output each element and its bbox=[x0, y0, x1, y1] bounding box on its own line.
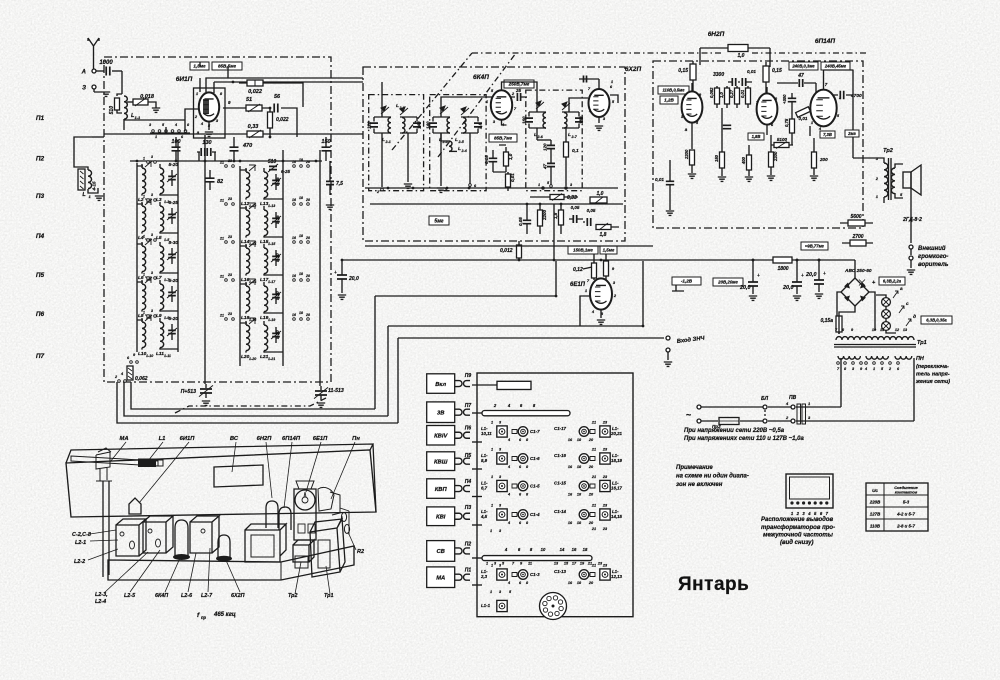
wafer bar P7 bbox=[482, 411, 570, 416]
svg-text:6-25: 6-25 bbox=[169, 200, 179, 206]
svg-text:тель напря-: тель напря- bbox=[916, 372, 950, 378]
wire triode plumbing bbox=[692, 83, 767, 149]
svg-text:18: 18 bbox=[583, 547, 588, 552]
resistor 5600 bbox=[848, 220, 865, 226]
trimmer square left П1 bbox=[497, 569, 507, 580]
svg-text:1: 1 bbox=[491, 564, 493, 568]
svg-text:21: 21 bbox=[591, 448, 596, 452]
svg-text:громкого-: громкого- bbox=[918, 254, 948, 260]
trimmer circle С1-4 bbox=[512, 513, 517, 517]
svg-text:10: 10 bbox=[541, 547, 546, 552]
resistor 2200 bbox=[538, 210, 543, 226]
svg-text:8-30: 8-30 bbox=[169, 240, 179, 246]
chassis deck bbox=[108, 546, 354, 580]
dial lamp b bbox=[882, 310, 891, 319]
transformer Tr2 core bbox=[889, 158, 892, 200]
svg-text:С-2,С-8: С-2,С-8 bbox=[72, 532, 91, 538]
chassis back panel bbox=[66, 450, 376, 517]
coil L1-7 bbox=[160, 246, 164, 272]
svg-text:L2-2: L2-2 bbox=[74, 559, 85, 565]
wire tank3 leads bbox=[441, 97, 512, 186]
svg-text:1-11: 1-11 bbox=[164, 354, 171, 358]
tuning arrow can1 a bbox=[381, 106, 389, 114]
capacitor 120 tank1 bbox=[374, 117, 391, 133]
svg-text:6Н2П: 6Н2П bbox=[257, 436, 273, 442]
switch button 3В bbox=[427, 402, 455, 423]
svg-text:3: 3 bbox=[151, 155, 153, 159]
contact pair 21 23 bbox=[225, 165, 228, 168]
svg-text:-1,2В: -1,2В bbox=[681, 279, 693, 284]
ground AF input bbox=[667, 352, 669, 360]
diode bridge bbox=[841, 278, 869, 306]
svg-text:КВШ: КВШ bbox=[434, 459, 448, 465]
svg-text:Расположение выводов: Расположение выводов bbox=[761, 517, 834, 523]
svg-text:пр: пр bbox=[201, 615, 207, 620]
wire U bottom 1 bbox=[117, 382, 398, 423]
svg-text:L2-1: L2-1 bbox=[75, 540, 86, 546]
voltage table bbox=[866, 483, 928, 531]
svg-text:21: 21 bbox=[219, 161, 224, 165]
transformer Tr1 primary a bbox=[838, 356, 860, 359]
transformer Tr2 primary bbox=[884, 163, 888, 197]
svg-text:1,0: 1,0 bbox=[508, 153, 513, 160]
ground at input bbox=[94, 89, 102, 92]
wire rail right column bbox=[239, 166, 241, 366]
svg-text:2-8 и 5-7: 2-8 и 5-7 bbox=[896, 524, 915, 529]
svg-text:Uс: Uс bbox=[872, 488, 878, 493]
coil L1-19 bbox=[264, 286, 268, 312]
svg-text:1,8В: 1,8В bbox=[752, 134, 761, 139]
svg-text:1,2В: 1,2В bbox=[664, 98, 674, 103]
svg-text:П5: П5 bbox=[465, 453, 472, 459]
terminal AF input 1 bbox=[666, 336, 670, 340]
resistor 0,33 bbox=[247, 131, 263, 137]
resistor 0,022 vertical bbox=[268, 112, 273, 128]
svg-text:+300: +300 bbox=[782, 94, 787, 104]
capacitor 0,05 b bbox=[573, 215, 576, 223]
wire anode risers bbox=[700, 48, 770, 67]
svg-text:1: 1 bbox=[490, 529, 492, 533]
contact pair left bbox=[147, 239, 150, 242]
svg-text:L2-6: L2-6 bbox=[181, 593, 193, 599]
svg-text:20,0: 20,0 bbox=[348, 276, 359, 282]
svg-text:2,3: 2,3 bbox=[480, 574, 488, 579]
svg-text:2-5: 2-5 bbox=[458, 140, 465, 144]
svg-text:Примечание: Примечание bbox=[676, 465, 713, 471]
svg-text:1: 1 bbox=[873, 367, 875, 371]
svg-text:0,012: 0,012 bbox=[500, 248, 513, 254]
svg-text:1: 1 bbox=[491, 504, 493, 508]
svg-text:З: З bbox=[82, 86, 86, 92]
svg-text:R2: R2 bbox=[357, 549, 364, 555]
svg-text:+: + bbox=[334, 270, 337, 276]
svg-text:16: 16 bbox=[292, 274, 296, 278]
coil L2-3 bbox=[447, 118, 450, 134]
speaker box VS bbox=[245, 524, 286, 562]
IF can box 1 bbox=[116, 519, 146, 556]
svg-text:8,9: 8,9 bbox=[481, 458, 488, 463]
gang link diagonal 1 bbox=[392, 53, 472, 150]
svg-text:КВП: КВП bbox=[435, 487, 448, 493]
svg-text:85В,7мг: 85В,7мг bbox=[494, 136, 513, 141]
svg-text:1: 1 bbox=[143, 273, 145, 277]
svg-text:0,75: 0,75 bbox=[784, 118, 789, 127]
svg-text:0,05: 0,05 bbox=[587, 208, 596, 213]
tuning eye assembly 6E1P bbox=[296, 481, 314, 489]
svg-text:Вкл: Вкл bbox=[435, 382, 446, 388]
svg-text:14: 14 bbox=[560, 547, 565, 552]
capacitor 100 bbox=[172, 147, 181, 151]
svg-text:6Х2П: 6Х2П bbox=[625, 66, 642, 73]
svg-text:Пн: Пн bbox=[352, 436, 360, 442]
resistor chain vertical 1,0 bbox=[725, 88, 730, 104]
svg-text:2700: 2700 bbox=[851, 234, 863, 240]
tube 6E1P bbox=[590, 278, 612, 309]
svg-text:2200: 2200 bbox=[684, 149, 689, 160]
wire rail P-513 bbox=[319, 150, 321, 386]
capacitor 25 grid bbox=[517, 93, 520, 101]
svg-text:АВС 250·60: АВС 250·60 bbox=[844, 268, 872, 274]
capacitor at 6X2P bbox=[584, 76, 587, 83]
svg-text:0,12: 0,12 bbox=[573, 267, 583, 273]
svg-text:СВ: СВ bbox=[437, 549, 445, 555]
svg-text:21: 21 bbox=[219, 237, 224, 241]
voltage box 240V,0,3mg bbox=[789, 62, 818, 70]
wire lamps bbox=[876, 295, 896, 333]
svg-text:МА: МА bbox=[436, 575, 445, 581]
svg-text:1,5мг: 1,5мг bbox=[603, 248, 615, 253]
wire AF line bbox=[398, 338, 664, 423]
capacitor 180 tank6 bbox=[562, 112, 579, 128]
coil L2-6 bbox=[543, 113, 546, 129]
svg-text:4,5: 4,5 bbox=[480, 514, 488, 519]
wire IF AGC bus bbox=[365, 187, 618, 189]
coil L1-16 bbox=[246, 248, 250, 274]
svg-text:23: 23 bbox=[227, 312, 232, 316]
svg-text:1: 1 bbox=[143, 311, 145, 315]
svg-text:14,15: 14,15 bbox=[611, 514, 623, 519]
svg-text:23: 23 bbox=[602, 527, 608, 531]
svg-text:1,0: 1,0 bbox=[738, 53, 745, 59]
resistor 0,15 second bbox=[763, 66, 769, 82]
chassis label leader lines bbox=[88, 530, 330, 594]
svg-text:11: 11 bbox=[528, 562, 532, 566]
tuning arrow can2 a bbox=[440, 106, 448, 114]
voltage box 6,3V lamps bbox=[921, 316, 952, 324]
resistor 0,33 bottom bbox=[550, 195, 564, 200]
svg-text:3: 3 bbox=[151, 193, 153, 197]
wire speaker to ext bbox=[910, 188, 912, 255]
svg-text:L2-5: L2-5 bbox=[124, 593, 136, 599]
svg-text:7,5: 7,5 bbox=[336, 181, 343, 187]
wire antenna to L1-1 bbox=[121, 71, 123, 94]
capacitor 2,0 tank4 bbox=[461, 117, 478, 133]
svg-text:L11: L11 bbox=[156, 351, 164, 357]
svg-text:20: 20 bbox=[588, 581, 594, 585]
svg-text:1-20: 1-20 bbox=[249, 357, 256, 361]
capacitor 150 bbox=[322, 147, 331, 151]
svg-text:470: 470 bbox=[242, 143, 252, 149]
svg-text:6И1П: 6И1П bbox=[180, 436, 196, 442]
tube 6X2P on chassis bbox=[218, 535, 230, 558]
svg-text:1000: 1000 bbox=[99, 60, 113, 66]
capacitor 4700 bbox=[840, 91, 843, 99]
svg-text:240В,0,3мг: 240В,0,3мг bbox=[791, 64, 815, 69]
svg-text:0,33: 0,33 bbox=[567, 195, 577, 201]
tuning arrow can1 b bbox=[400, 107, 408, 115]
trimmer square left П5 bbox=[497, 453, 507, 464]
svg-text:КВI: КВI bbox=[436, 514, 446, 520]
svg-text:П2: П2 bbox=[465, 542, 472, 548]
svg-text:23: 23 bbox=[602, 564, 608, 568]
junction dots bbox=[387, 187, 390, 190]
svg-text:51: 51 bbox=[246, 97, 252, 103]
svg-text:ПН: ПН bbox=[916, 356, 924, 362]
svg-text:240В,45мг: 240В,45мг bbox=[824, 64, 847, 69]
wire pair stub right bbox=[240, 208, 283, 237]
svg-text:6Х2П: 6Х2П bbox=[231, 593, 245, 599]
coil L2-1 bbox=[388, 118, 391, 134]
svg-text:1: 1 bbox=[491, 448, 493, 452]
transformer Tr1 primary c bbox=[895, 356, 912, 359]
contact row pins 1-8 bbox=[152, 130, 155, 133]
capacitor 470 bbox=[230, 147, 239, 151]
wire pair stub bbox=[137, 320, 178, 349]
wire tank4 leads bbox=[469, 133, 471, 188]
svg-text:контактов: контактов bbox=[895, 490, 918, 495]
svg-text:П7: П7 bbox=[36, 353, 45, 360]
svg-text:0,05: 0,05 bbox=[571, 205, 580, 210]
voltage box -1,2V bbox=[672, 277, 701, 285]
svg-text:3В: 3В bbox=[437, 410, 444, 416]
wire divider top bbox=[537, 139, 551, 141]
wire pair stub bbox=[137, 282, 178, 311]
contact pair left bbox=[147, 161, 150, 164]
trimmer square right П6 bbox=[600, 426, 610, 437]
row stub П3 bbox=[472, 524, 482, 526]
svg-text:1-17: 1-17 bbox=[268, 280, 276, 284]
svg-text:160: 160 bbox=[522, 116, 527, 124]
tube 6P14P on chassis bbox=[279, 507, 291, 530]
terminal A bbox=[92, 69, 96, 73]
svg-text:1: 1 bbox=[491, 421, 493, 425]
IF can 1 box bbox=[369, 95, 424, 191]
resistor chain vertical 0,082 bbox=[715, 88, 720, 104]
svg-text:~: ~ bbox=[686, 410, 691, 420]
voltage selector PV bbox=[791, 405, 795, 409]
capacitor 0,01 left bbox=[666, 181, 674, 184]
resistor 0,75 bbox=[790, 119, 795, 133]
svg-text:23: 23 bbox=[227, 159, 232, 163]
svg-text:(вид снизу): (вид снизу) bbox=[780, 540, 813, 546]
wire Tr1 to bridge bbox=[839, 316, 872, 334]
svg-text:6-25: 6-25 bbox=[281, 169, 291, 174]
svg-text:21: 21 bbox=[587, 562, 592, 566]
svg-text:0,33: 0,33 bbox=[248, 124, 259, 130]
trimmer square right П5 bbox=[600, 453, 610, 464]
wire L1-1 down bbox=[123, 119, 125, 130]
svg-text:16,17: 16,17 bbox=[611, 486, 623, 491]
transformer Tr1 core bbox=[834, 345, 916, 348]
voltage box 240V,45mg bbox=[821, 62, 850, 70]
power switch slider bbox=[497, 381, 531, 389]
resistor 51 bbox=[246, 105, 262, 111]
svg-text:1,8: 1,8 bbox=[600, 232, 607, 238]
Tr1 terminal row bottom bbox=[837, 362, 840, 365]
svg-text:110В,0,5мг: 110В,0,5мг bbox=[662, 88, 685, 93]
svg-text:23: 23 bbox=[597, 562, 603, 566]
contact group right bbox=[293, 279, 296, 282]
switch button Вкл bbox=[427, 374, 455, 394]
coil L1-13 bbox=[264, 172, 268, 198]
switch button КВШ bbox=[427, 452, 455, 471]
svg-text:11-513: 11-513 bbox=[328, 388, 344, 394]
gang mechanical link dash-dot bbox=[175, 398, 326, 413]
svg-text:20: 20 bbox=[588, 465, 594, 469]
svg-text:П6: П6 bbox=[465, 426, 472, 432]
resistor 2200 cathode2 bbox=[769, 152, 774, 167]
svg-text:Тр2: Тр2 bbox=[883, 148, 893, 154]
svg-text:6К4П: 6К4П bbox=[473, 74, 489, 81]
svg-text:2ГД-8·2: 2ГД-8·2 bbox=[902, 217, 922, 223]
tuning arrow can3 a bbox=[536, 101, 544, 109]
svg-text:а: а bbox=[900, 287, 903, 292]
svg-text:6Е1П: 6Е1П bbox=[570, 282, 586, 288]
svg-text:2-1: 2-1 bbox=[385, 140, 391, 144]
ground 6X2P bbox=[595, 126, 603, 130]
svg-text:140: 140 bbox=[426, 121, 431, 129]
svg-text:6И1П: 6И1П bbox=[176, 76, 193, 83]
voltage box 85V,7mg bbox=[489, 134, 517, 142]
svg-text:21: 21 bbox=[219, 314, 224, 318]
svg-text:16: 16 bbox=[292, 198, 296, 202]
wire 6K4P anode bbox=[502, 82, 518, 90]
svg-text:0,05: 0,05 bbox=[484, 155, 489, 164]
svg-text:2200: 2200 bbox=[773, 151, 778, 162]
tuning arrow can3 b bbox=[562, 102, 570, 110]
svg-text:П3: П3 bbox=[36, 193, 45, 200]
svg-text:жения сети): жения сети) bbox=[915, 379, 950, 385]
rotary switch rear bbox=[540, 593, 567, 620]
resistor 150 bbox=[720, 152, 725, 168]
coil L1-21 bbox=[264, 325, 268, 351]
svg-text:1,0: 1,0 bbox=[719, 92, 724, 98]
voltage box 150V,1mg bbox=[568, 246, 598, 254]
row stub П6 bbox=[472, 441, 482, 443]
transformer Tr1 on chassis bbox=[310, 518, 345, 577]
band switch unit dashed box bbox=[104, 57, 331, 382]
terminal ext speaker 2 bbox=[909, 256, 913, 260]
resistor 1,0 top bbox=[728, 45, 748, 52]
wire tank5 leads bbox=[517, 82, 537, 140]
svg-text:130: 130 bbox=[202, 140, 211, 146]
svg-text:L7: L7 bbox=[156, 275, 162, 281]
coil L2-4 bbox=[441, 133, 449, 141]
switch button КВI bbox=[427, 507, 455, 526]
lamp arrows bbox=[893, 291, 911, 326]
svg-text:510: 510 bbox=[109, 106, 115, 115]
capacitor 160 tank5 bbox=[529, 112, 546, 128]
tuning gang capacitor P+513 bbox=[200, 389, 212, 393]
wire L1 to box bbox=[74, 137, 98, 193]
wire AGC row bbox=[130, 160, 322, 162]
svg-text:6П14П: 6П14П bbox=[815, 38, 836, 45]
svg-text:110В: 110В bbox=[870, 524, 881, 529]
antenna mast post bbox=[103, 481, 109, 577]
svg-text:200: 200 bbox=[819, 157, 828, 162]
coil L1-18 bbox=[246, 286, 250, 312]
svg-text:5-20: 5-20 bbox=[169, 162, 179, 168]
contact pair 21 23 bbox=[225, 203, 228, 206]
trimmer square left П3 bbox=[497, 509, 507, 520]
capacitor 7,5 bbox=[326, 181, 334, 184]
trimmer 5-20 bbox=[272, 256, 280, 259]
wire mains top bbox=[701, 358, 841, 407]
contact pair 21 23 bbox=[225, 241, 228, 244]
antenna bracket bbox=[96, 448, 112, 481]
svg-text:КВIV: КВIV bbox=[434, 433, 448, 439]
svg-text:L5: L5 bbox=[156, 235, 162, 241]
coil L1-10 bbox=[142, 322, 146, 348]
resistor 0,012 bbox=[517, 245, 522, 258]
svg-text:3: 3 bbox=[151, 233, 153, 237]
svg-text:1: 1 bbox=[155, 135, 157, 139]
resistor chain vertical 0,01 bbox=[746, 88, 751, 104]
svg-text:5-20: 5-20 bbox=[169, 278, 179, 284]
ferrite rod antenna bbox=[71, 456, 158, 466]
IF can box 3 bbox=[190, 516, 219, 553]
contact group right bbox=[293, 165, 296, 168]
svg-text:L1: L1 bbox=[159, 436, 166, 442]
svg-text:1,0: 1,0 bbox=[597, 191, 604, 197]
svg-text:23: 23 bbox=[227, 197, 232, 201]
IF transformer pinout drawing bbox=[786, 474, 833, 508]
trimmer 6-25 bbox=[272, 180, 280, 183]
trimmer 5-20 bbox=[272, 333, 280, 336]
svg-text:16: 16 bbox=[292, 236, 296, 240]
svg-text:С1-15: С1-15 bbox=[554, 481, 567, 486]
svg-text:18,19: 18,19 bbox=[611, 458, 623, 463]
contact pair left bbox=[147, 199, 150, 202]
wire AGC long 2 bbox=[388, 261, 643, 416]
svg-text:П4: П4 bbox=[465, 479, 472, 485]
tube 6I1P shield box bbox=[194, 88, 226, 138]
trimmer square right П3 bbox=[600, 509, 610, 520]
capacitor 56 bbox=[274, 104, 278, 113]
svg-text:6,3В,2,2а: 6,3В,2,2а bbox=[883, 279, 902, 284]
capacitor 1000 bbox=[96, 70, 104, 72]
svg-text:16: 16 bbox=[292, 160, 296, 164]
switch unit main box bbox=[477, 373, 633, 617]
tube 6N2P triode 2 bbox=[757, 93, 778, 124]
trimmer 5-20 bbox=[168, 330, 176, 333]
svg-text:1-1: 1-1 bbox=[135, 115, 142, 120]
svg-text:П6: П6 bbox=[36, 311, 45, 318]
resistor 0,062 bbox=[127, 366, 133, 380]
svg-text:П9: П9 bbox=[465, 373, 472, 379]
wire pair stub bbox=[137, 166, 178, 195]
contact group right bbox=[293, 203, 296, 206]
svg-text:3300: 3300 bbox=[713, 72, 724, 78]
capacitor 0,01 mid bbox=[723, 125, 731, 128]
svg-text:С1-4: С1-4 bbox=[530, 512, 540, 517]
voltage box 9V,77mg bbox=[801, 242, 828, 250]
resistor 1800 bbox=[773, 257, 792, 263]
capacitor +300 bbox=[788, 98, 796, 101]
svg-text:воритель: воритель bbox=[918, 262, 949, 268]
svg-text:465 кгц: 465 кгц bbox=[213, 612, 236, 618]
svg-text:П+513: П+513 bbox=[181, 389, 197, 395]
